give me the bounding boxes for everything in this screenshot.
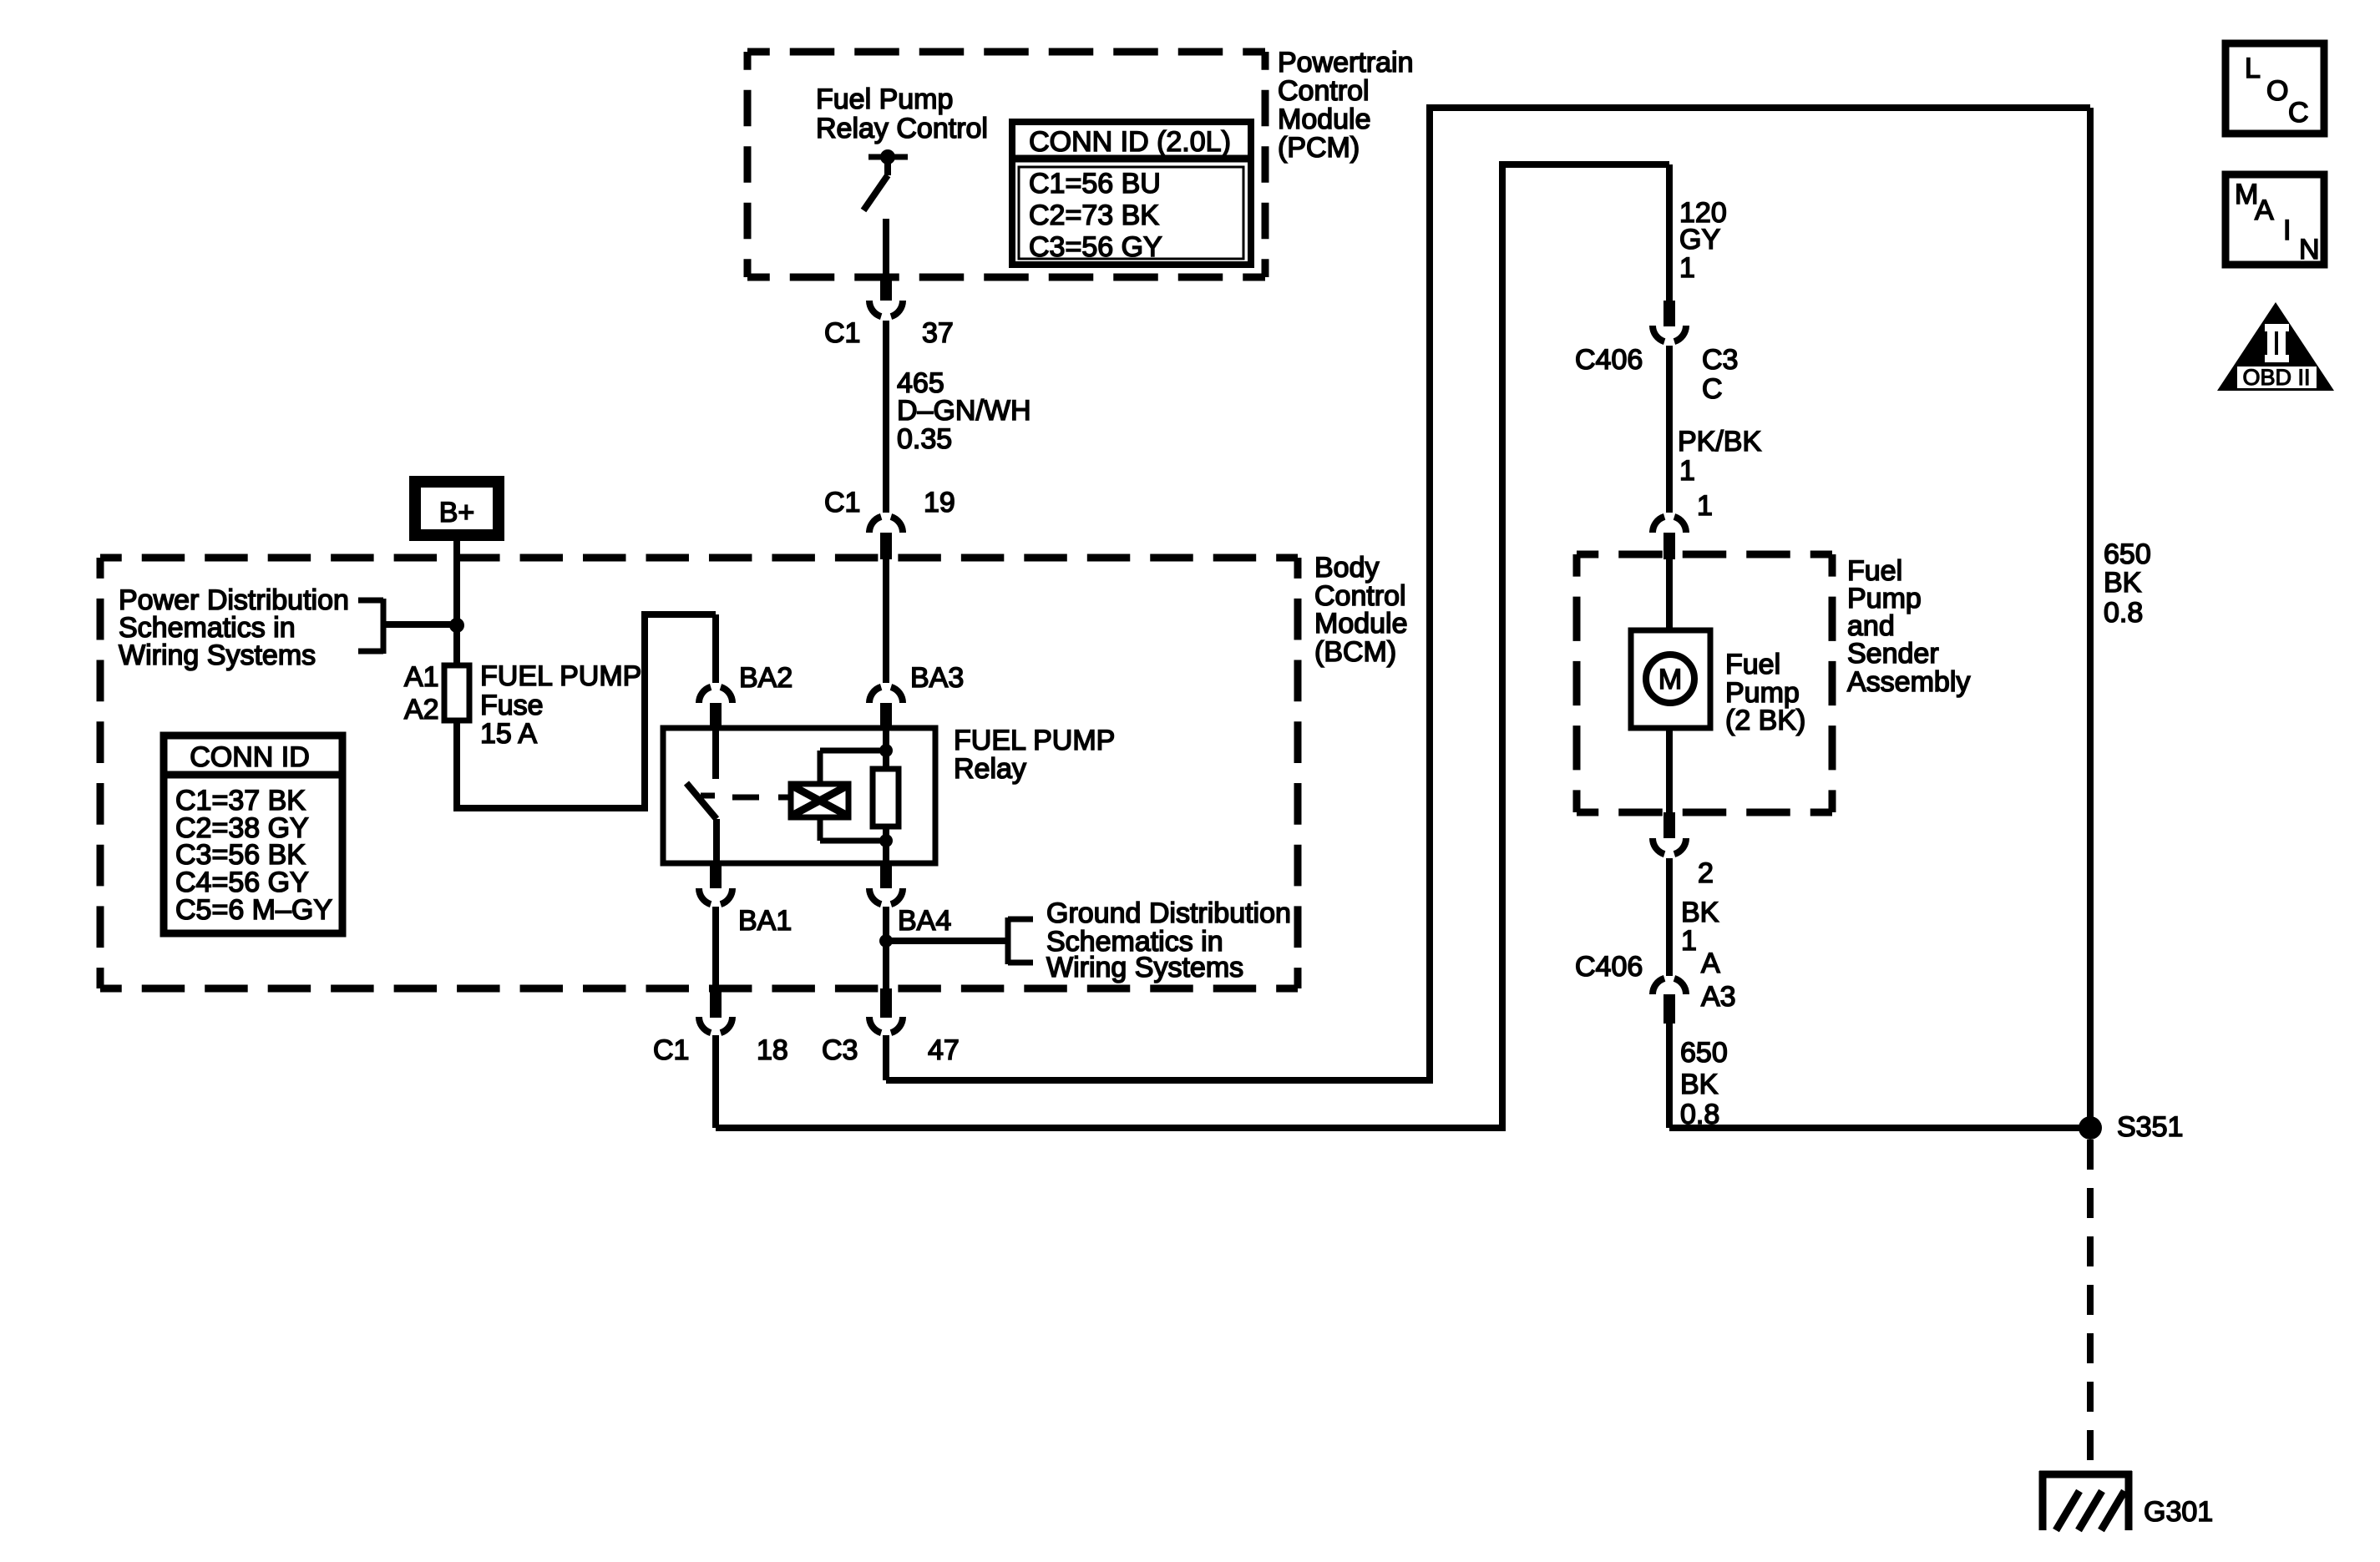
bracket: ground distribution reference xyxy=(1005,917,1011,964)
svg-text:BA3: BA3 xyxy=(910,662,964,694)
svg-text:Relay Control: Relay Control xyxy=(816,113,988,144)
FUEL PUMP fuse 15A xyxy=(444,665,469,720)
svg-text:O: O xyxy=(2266,75,2288,107)
wire BA1 to C1/18 xyxy=(712,907,719,989)
svg-text:A1: A1 xyxy=(404,661,439,693)
wire to power distribution note xyxy=(383,621,457,628)
connector BA2 xyxy=(699,686,732,703)
wire C1/18 to fuel pump feed xyxy=(716,164,1669,1128)
svg-text:15 A: 15 A xyxy=(480,718,537,750)
svg-text:(BCM): (BCM) xyxy=(1314,636,1396,668)
svg-text:FUEL PUMP: FUEL PUMP xyxy=(480,660,641,692)
svg-text:0.8: 0.8 xyxy=(2104,597,2143,629)
svg-text:Assembly: Assembly xyxy=(1847,666,1970,698)
junction coil/resistor bottom xyxy=(879,834,893,847)
svg-text:FUEL PUMP: FUEL PUMP xyxy=(954,725,1115,756)
svg-text:B+: B+ xyxy=(439,497,475,528)
MAIN reference box xyxy=(2226,174,2324,265)
svg-text:A: A xyxy=(1701,948,1720,979)
svg-text:Powertrain: Powertrain xyxy=(1278,47,1414,78)
svg-text:2: 2 xyxy=(1698,857,1714,889)
connector C1 pin 37 (PCM) xyxy=(880,277,892,301)
svg-text:M: M xyxy=(1658,664,1682,695)
svg-text:Control: Control xyxy=(1278,75,1370,107)
svg-text:C2=73 BK: C2=73 BK xyxy=(1029,200,1159,231)
svg-text:BA2: BA2 xyxy=(739,662,792,694)
fuel pump motor M xyxy=(1646,655,1694,703)
connector pin 2 (fuel pump assembly) xyxy=(1663,812,1675,838)
wire to splice S351 xyxy=(1669,1125,2090,1131)
relay actuator dashed link xyxy=(732,795,791,801)
svg-text:Fuse: Fuse xyxy=(480,690,544,721)
connector C406 pin C3/C xyxy=(1663,301,1675,326)
svg-text:C1: C1 xyxy=(824,487,860,518)
svg-text:G301: G301 xyxy=(2144,1496,2213,1528)
svg-text:C1: C1 xyxy=(653,1034,689,1066)
wire motor to pin 2 xyxy=(1666,728,1673,812)
svg-text:L: L xyxy=(2245,53,2261,84)
fuel pump motor box xyxy=(1631,630,1710,728)
svg-text:C5=6 M–GY: C5=6 M–GY xyxy=(175,894,332,926)
connector C1 pin 18 xyxy=(710,988,722,1018)
wire C3/47 down xyxy=(883,1035,889,1080)
junction BA4 / ground distribution xyxy=(879,934,893,948)
svg-text:37: 37 xyxy=(922,317,954,349)
bracket: power distribution reference xyxy=(381,599,387,654)
BCM CONN ID table xyxy=(164,736,342,933)
OBD II symbol triangle xyxy=(2217,302,2334,391)
svg-text:BA1: BA1 xyxy=(738,905,792,937)
svg-text:OBD II: OBD II xyxy=(2242,365,2310,390)
svg-text:C: C xyxy=(2288,97,2309,129)
wire fuse to relay BA2 xyxy=(457,614,716,808)
junction B+ / power distribution xyxy=(449,618,464,633)
svg-text:BA4: BA4 xyxy=(898,905,951,937)
relay coil xyxy=(791,784,848,817)
connector BA1 xyxy=(710,863,722,888)
svg-text:BK: BK xyxy=(1681,897,1719,928)
PCM CONN ID (2.0L) table xyxy=(1012,122,1251,265)
svg-text:(2 BK): (2 BK) xyxy=(1725,705,1805,736)
svg-text:1: 1 xyxy=(1679,455,1695,487)
connector BA3 xyxy=(869,686,903,703)
svg-text:1: 1 xyxy=(1697,490,1713,522)
svg-text:Sender: Sender xyxy=(1847,638,1939,670)
svg-text:A: A xyxy=(2255,195,2274,226)
wire resistor to BA4 xyxy=(883,826,889,863)
Fuel Pump and Sender Assembly dashed box xyxy=(1577,551,1832,559)
svg-text:CONN ID (2.0L): CONN ID (2.0L) xyxy=(1029,126,1231,158)
svg-text:C3=56 GY: C3=56 GY xyxy=(1029,231,1162,263)
svg-text:S351: S351 xyxy=(2117,1111,2183,1143)
wire BA4 to C3/47 xyxy=(883,907,889,989)
svg-text:650: 650 xyxy=(2104,538,2151,570)
wire into BA3 xyxy=(883,559,889,683)
svg-text:Relay: Relay xyxy=(954,753,1026,785)
svg-text:C3: C3 xyxy=(822,1034,858,1066)
svg-text:PK/BK: PK/BK xyxy=(1678,426,1761,457)
svg-text:Fuel: Fuel xyxy=(1725,649,1780,680)
svg-text:C1: C1 xyxy=(824,317,860,349)
wire to ground distribution note xyxy=(886,938,1008,944)
wire C1/18 down xyxy=(712,1035,719,1128)
wire 650 BK 0.8 right side xyxy=(2087,108,2094,1128)
ground G301 symbol xyxy=(2039,1471,2132,1479)
wire BA3 to resistor xyxy=(883,728,889,769)
svg-text:Fuel Pump: Fuel Pump xyxy=(816,83,953,115)
svg-text:N: N xyxy=(2299,234,2320,265)
wire 650 BK 0.8 to S351 xyxy=(1666,1024,1673,1128)
connector C3 pin 47 xyxy=(880,988,892,1018)
svg-text:Wiring Systems: Wiring Systems xyxy=(1046,952,1243,983)
dashed wire S351 to G301 xyxy=(2087,1140,2094,1473)
svg-text:Ground Distribution: Ground Distribution xyxy=(1046,897,1291,929)
connector BA4 xyxy=(880,863,892,888)
relay switch contact xyxy=(712,728,719,779)
svg-text:C406: C406 xyxy=(1575,344,1643,376)
svg-text:A3: A3 xyxy=(1701,981,1736,1013)
svg-text:D–GN/WH: D–GN/WH xyxy=(897,395,1031,427)
svg-text:CONN ID: CONN ID xyxy=(190,741,310,773)
svg-text:1: 1 xyxy=(1679,252,1695,284)
svg-text:C1=56 BU: C1=56 BU xyxy=(1029,168,1161,200)
svg-text:BK: BK xyxy=(1680,1069,1719,1100)
wire PK/BK 1 xyxy=(1666,346,1673,513)
svg-text:47: 47 xyxy=(928,1034,960,1066)
svg-text:0.35: 0.35 xyxy=(897,423,952,455)
svg-text:Module: Module xyxy=(1314,608,1408,639)
LOC reference box xyxy=(2226,43,2324,134)
wire 465 D-GN/WH 0.35 xyxy=(883,321,889,513)
junction coil/resistor top xyxy=(879,744,893,757)
svg-text:I: I xyxy=(2283,215,2291,246)
svg-text:BK: BK xyxy=(2104,567,2142,599)
svg-text:C3: C3 xyxy=(1702,344,1738,376)
B+ battery feed symbol xyxy=(415,482,499,535)
svg-text:1: 1 xyxy=(1681,925,1697,957)
svg-text:Body: Body xyxy=(1314,552,1380,584)
svg-text:GY: GY xyxy=(1679,224,1720,255)
Powertrain Control Module (PCM) dashed box xyxy=(747,48,1265,56)
splice S351 xyxy=(2079,1116,2102,1140)
wire 120 GY to C406 xyxy=(1666,164,1673,301)
svg-text:19: 19 xyxy=(924,487,955,518)
svg-text:C406: C406 xyxy=(1575,951,1643,983)
connector pin 1 (fuel pump assembly) xyxy=(1653,516,1686,533)
FUEL PUMP Relay box xyxy=(663,728,935,863)
relay resistor xyxy=(873,769,899,826)
svg-text:A2: A2 xyxy=(404,694,439,725)
wire to fuel pump motor xyxy=(1666,559,1673,630)
svg-text:C: C xyxy=(1702,373,1723,405)
wire C3/47 to splice S351 xyxy=(886,108,2090,1080)
svg-text:Wiring Systems: Wiring Systems xyxy=(119,639,316,671)
wire B+ to fuse xyxy=(453,541,460,665)
svg-text:(PCM): (PCM) xyxy=(1278,132,1360,164)
svg-text:Module: Module xyxy=(1278,104,1371,135)
Body Control Module (BCM) dashed box xyxy=(100,554,1298,562)
switch: fuel pump relay control driver inside PCM xyxy=(880,149,895,164)
svg-text:18: 18 xyxy=(757,1034,788,1066)
svg-text:650: 650 xyxy=(1680,1037,1728,1069)
wire BK 1 xyxy=(1666,858,1673,976)
wire into BA2 xyxy=(712,614,719,683)
